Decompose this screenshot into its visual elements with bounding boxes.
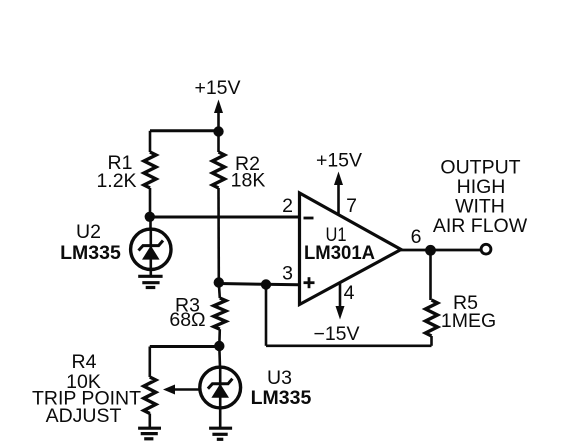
svg-text:+15V: +15V [194, 77, 240, 99]
svg-text:LM301A: LM301A [304, 242, 375, 264]
svg-text:U2: U2 [76, 221, 101, 243]
svg-text:6: 6 [411, 226, 422, 248]
svg-text:1.2K: 1.2K [96, 170, 136, 192]
svg-text:R4: R4 [72, 351, 97, 373]
power -15V label [313, 323, 359, 345]
label R1 1.2K [96, 152, 136, 192]
node R2/R3 junction dot [214, 277, 224, 287]
node R3 bottom junction dot [214, 341, 224, 351]
resistor R2 [213, 132, 225, 283]
pin 3 number [282, 263, 293, 285]
label U2 LM335 [60, 221, 121, 264]
op-amp U1 triangle [300, 193, 402, 305]
node feedback tap junction dot [261, 279, 271, 289]
node output junction dot [425, 245, 436, 256]
svg-text:2: 2 [282, 195, 293, 217]
ground under U2 [138, 276, 162, 287]
power -15V pin4 arrow [336, 283, 345, 320]
svg-text:1MEG: 1MEG [441, 310, 496, 332]
output terminal open circle [481, 244, 491, 254]
node top junction dot [213, 126, 223, 136]
resistor R1 [144, 131, 156, 217]
label OUTPUT HIGH WITH AIR FLOW [433, 157, 528, 238]
ground under R4 [138, 428, 161, 439]
svg-text:+15V: +15V [316, 150, 362, 172]
label U1 LM301A [304, 224, 375, 264]
sensor U2 LM335 [131, 217, 171, 275]
label R3 68ohm [169, 295, 205, 332]
node R1 bottom junction dot [145, 212, 155, 222]
svg-text:AIR FLOW: AIR FLOW [433, 215, 528, 237]
pin 4 number [344, 282, 355, 304]
sensor U3 LM335 [200, 346, 241, 427]
label R4 10K TRIP POINT ADJUST [32, 351, 141, 427]
label U3 LM335 [251, 367, 312, 409]
resistor R5 [426, 250, 438, 345]
wire pin2 from node to op-amp [150, 216, 299, 219]
wire feedback bottom horizontal [266, 344, 432, 347]
svg-text:LM335: LM335 [251, 387, 312, 409]
svg-text:18K: 18K [231, 170, 266, 192]
wire pin3 from node to op-amp [219, 284, 299, 285]
wire from R3 bottom node to R4 top [150, 345, 220, 348]
wire top rail from R1 to +15V node [150, 129, 219, 132]
power +15V pin7 arrow [334, 172, 343, 215]
svg-text:U3: U3 [267, 367, 292, 389]
svg-text:−15V: −15V [313, 323, 359, 345]
svg-text:ADJUST: ADJUST [46, 405, 122, 427]
power +15V top label [194, 77, 240, 99]
pin 7 number [346, 195, 357, 217]
svg-text:7: 7 [346, 195, 357, 217]
label R2 18K [231, 153, 266, 192]
wire feedback vertical drop [265, 285, 268, 346]
op-amp plus input mark [304, 277, 315, 288]
power +15V top arrow [214, 100, 223, 133]
wire output from pin6 to terminal [401, 249, 481, 252]
label R5 1MEG [441, 292, 496, 332]
svg-text:68Ω: 68Ω [169, 309, 205, 331]
ground under U3 [209, 428, 232, 439]
pin 6 number [411, 226, 422, 248]
svg-text:3: 3 [282, 263, 293, 285]
svg-text:LM335: LM335 [60, 242, 121, 264]
op-amp minus input mark [304, 217, 314, 220]
resistor R3 [214, 283, 226, 346]
pin 2 number [282, 195, 293, 217]
svg-text:4: 4 [344, 282, 355, 304]
power +15V op-amp label [316, 150, 362, 172]
potentiometer R4 [144, 347, 199, 428]
